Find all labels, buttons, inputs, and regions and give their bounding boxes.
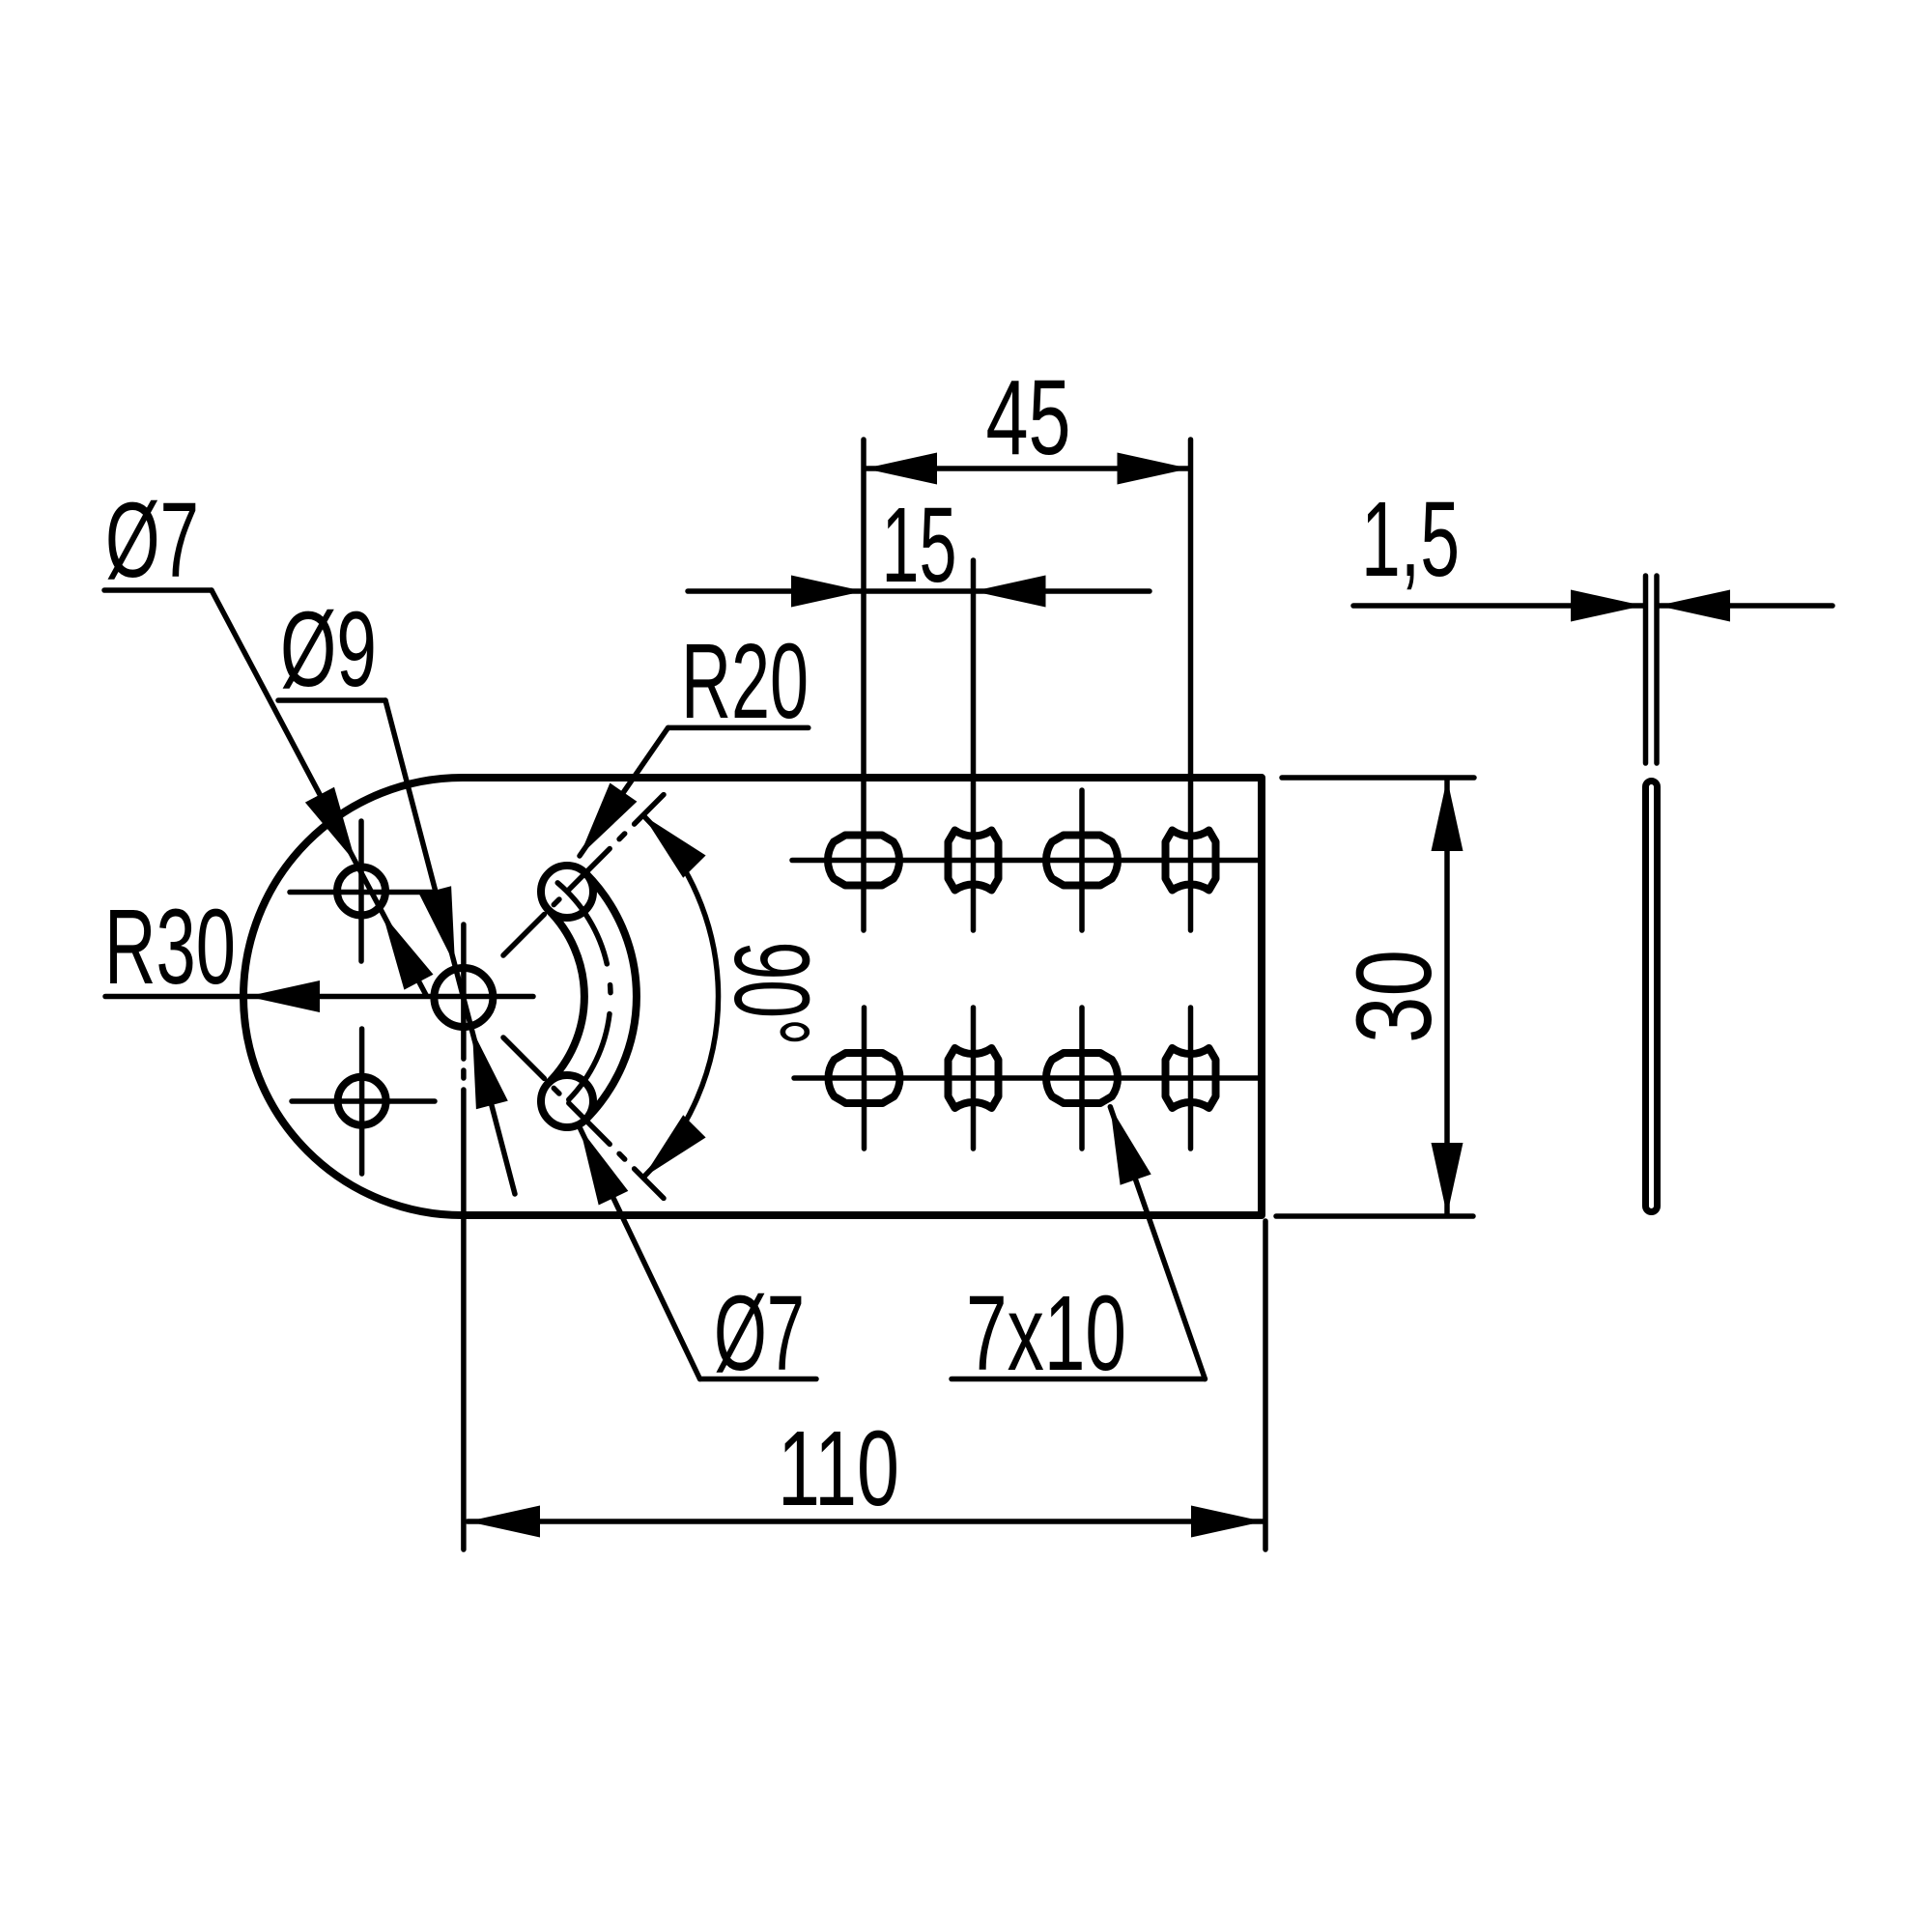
dimension D9 opposite arrow <box>472 1031 508 1110</box>
svg-text:7x10: 7x10 <box>966 1274 1126 1393</box>
svg-text:15: 15 <box>882 486 957 605</box>
dimension 30 arrow bottom <box>1432 1143 1463 1215</box>
dimension 1,5 arrow left <box>1571 590 1643 622</box>
dimension D9 arrow into hole <box>419 886 455 965</box>
dimension 110 extension line right <box>1263 1221 1268 1549</box>
dimension D9 leader <box>385 700 515 1194</box>
dimension 15 arrow left <box>791 576 864 608</box>
dimension 7x10 arrow <box>1110 1107 1151 1185</box>
dimension D7 slot leader <box>581 1128 700 1379</box>
dimension D7 leader <box>212 590 426 995</box>
dimension 1,5 line left <box>1353 603 1643 609</box>
svg-text:90°: 90° <box>712 942 831 1046</box>
dimension D9 underline <box>278 697 385 703</box>
slot axis line +45deg (dash-dot) <box>503 795 664 955</box>
bottom row slot 4 (7x10 vertical) <box>1166 1048 1216 1108</box>
side view thin plate <box>1646 781 1658 1212</box>
hole D7 lower-left <box>338 1077 386 1125</box>
dimension 1,5 arrow right <box>1658 590 1730 622</box>
dimension 7x10 leader <box>1110 1107 1205 1379</box>
dimension 30 extension line top <box>1282 775 1474 781</box>
dimension 45 arrow right <box>1118 453 1190 485</box>
slot axis line -45deg (dash-dot) <box>503 1037 664 1198</box>
dimension 110 line <box>468 1519 1264 1524</box>
dimension 15 arrow right <box>974 576 1046 608</box>
dimension R20 leader <box>580 727 668 856</box>
dimension 30 line <box>1444 779 1450 1215</box>
dimension 110 arrow right <box>1191 1506 1264 1538</box>
svg-text:R30: R30 <box>104 888 236 1007</box>
hole D9 center <box>434 968 493 1027</box>
dimension 90deg arc <box>643 815 719 1178</box>
dimension 7x10 underline <box>952 1377 1205 1382</box>
top row slot 4 (7x10 vertical) <box>1166 831 1216 891</box>
curved slot upper end circle D7 <box>541 866 593 918</box>
dimension D7 slot arrow <box>581 1128 629 1206</box>
dimension D7 slot underline <box>700 1377 817 1382</box>
bottom row slot vertical centerlines <box>862 1008 867 1149</box>
top row slot 3 (7x10 horizontal) <box>1046 836 1118 886</box>
bottom row slot 3 (7x10 horizontal) <box>1046 1053 1118 1103</box>
svg-text:R20: R20 <box>681 622 809 741</box>
dimension R20 underline <box>668 725 809 731</box>
plate outline (front view, R30 rounded left end, 110x30 body) <box>243 778 1262 1215</box>
dimension 110 extension line left (from D9 center, dash-dot) <box>461 924 467 1059</box>
bottom row slot 2 (7x10 vertical) <box>949 1048 999 1108</box>
curved slot R20 outer arc <box>585 873 637 1120</box>
dimension R30 line / D9 horizontal centerline <box>105 994 533 1000</box>
curved slot center arc (dash-dot R20) <box>557 883 611 1110</box>
hole D7 upper-left <box>337 867 385 916</box>
dimension D7 opposite arrow <box>383 914 434 990</box>
dimension 15 line <box>688 588 1150 594</box>
svg-text:Ø9: Ø9 <box>280 590 377 709</box>
svg-text:Ø7: Ø7 <box>105 481 199 600</box>
dimension 45 line <box>865 466 1190 471</box>
dimension R20 arrow <box>580 783 637 857</box>
dimension 90deg arrow top <box>643 815 706 878</box>
dimension 1,5 extension lines <box>1643 576 1649 763</box>
svg-text:45: 45 <box>986 358 1071 477</box>
centerline cross of lower D7 hole <box>292 1098 435 1104</box>
centerline cross of upper D7 hole <box>290 890 433 895</box>
bottom row horizontal centerline <box>794 1075 1262 1081</box>
curved slot lower end circle D7 <box>541 1075 593 1127</box>
bottom row slot 1 (7x10 horizontal) <box>828 1053 899 1103</box>
curved slot R20 inner arc <box>549 910 584 1083</box>
top row slot vertical centerlines / extension lines <box>861 440 867 930</box>
dimension 30 extension line bottom <box>1276 1213 1473 1219</box>
dimension 90deg arrow bottom <box>643 1115 706 1178</box>
dimension D7 arrow into hole <box>305 787 356 864</box>
svg-text:1,5: 1,5 <box>1361 480 1460 599</box>
dimension 45 arrow left <box>865 453 937 485</box>
dimension 30 arrow top <box>1432 779 1463 851</box>
dimension 110 arrow left <box>468 1506 540 1538</box>
svg-text:Ø7: Ø7 <box>714 1274 805 1393</box>
top row slot 2 (7x10 vertical) <box>949 831 999 891</box>
svg-text:30: 30 <box>1335 950 1454 1043</box>
svg-text:110: 110 <box>778 1409 899 1528</box>
top row slot 1 (7x10 horizontal) <box>828 836 899 886</box>
dimension 1,5 line right <box>1658 603 1833 609</box>
dimension D7 underline <box>104 587 212 593</box>
dimension R30 arrow <box>247 980 320 1012</box>
top row horizontal centerline <box>792 858 1262 864</box>
